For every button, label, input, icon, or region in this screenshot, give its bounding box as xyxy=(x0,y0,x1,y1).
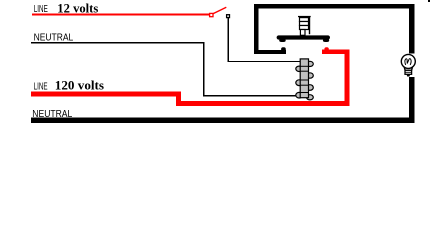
svg-text:LINE: LINE xyxy=(34,4,48,15)
svg-text:12 volts: 12 volts xyxy=(57,1,98,15)
svg-text:LINE: LINE xyxy=(34,81,48,92)
svg-text:120 volts: 120 volts xyxy=(55,79,104,93)
